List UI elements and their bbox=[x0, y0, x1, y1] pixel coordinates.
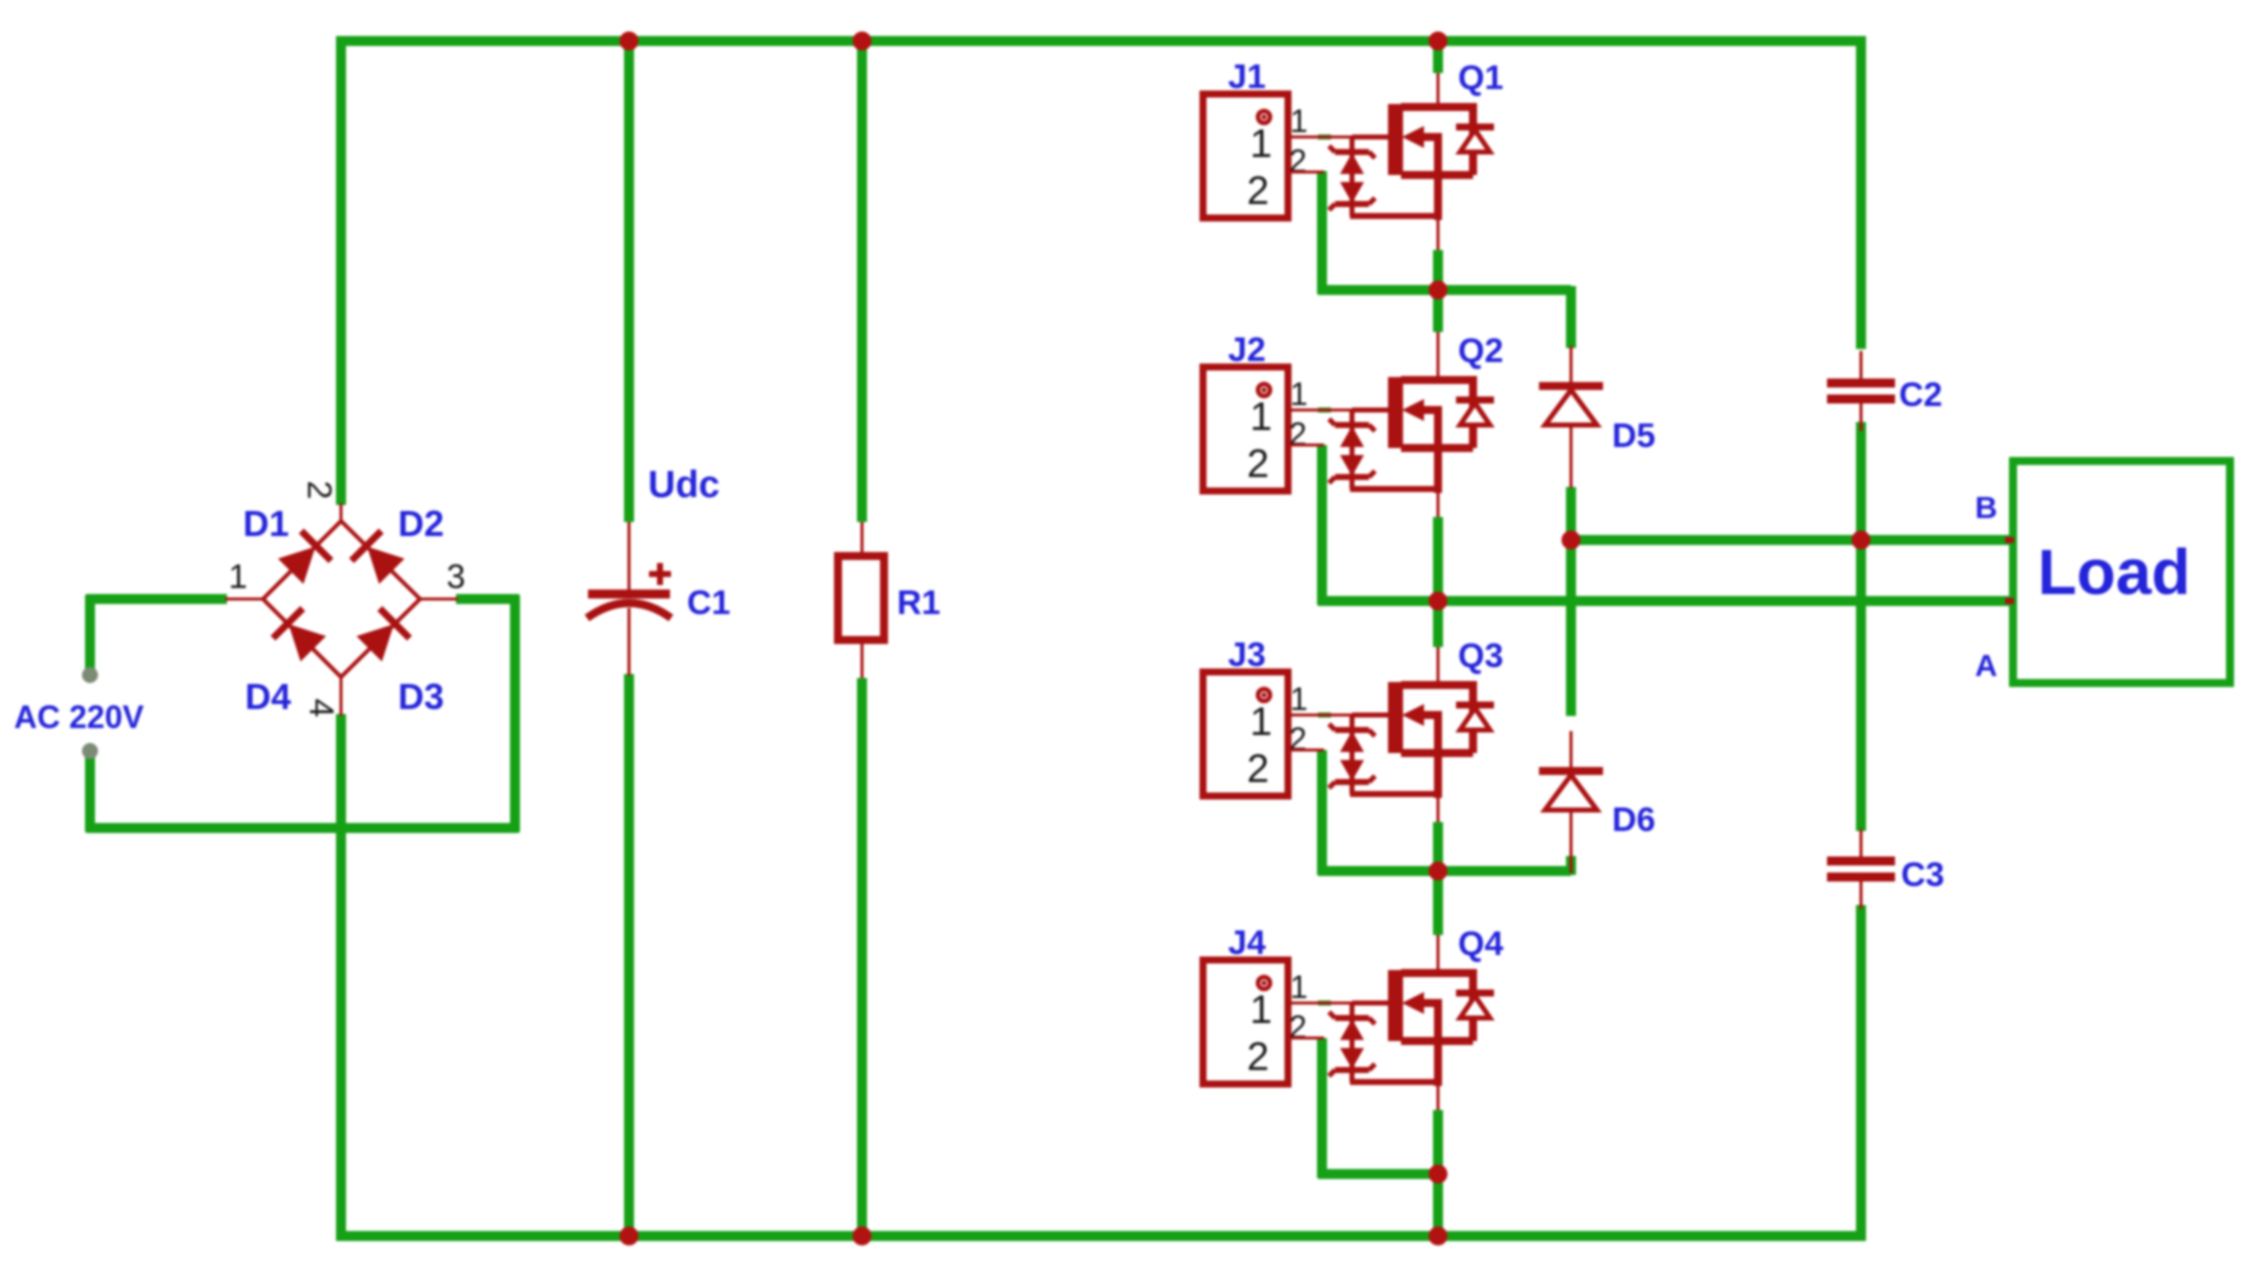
wire node B down to D6 cathode bbox=[1566, 540, 1576, 716]
wire node A line to Load bbox=[1318, 596, 2013, 606]
AC source terminals bbox=[82, 667, 98, 683]
transistor Q4 bbox=[1388, 935, 1494, 1110]
svg-text:C1: C1 bbox=[687, 584, 730, 622]
wire J3 pin2 return bbox=[1317, 750, 1327, 875]
svg-text:Q2: Q2 bbox=[1458, 332, 1503, 370]
svg-text:J3: J3 bbox=[1228, 636, 1266, 674]
node junction bbox=[620, 32, 639, 51]
wire J2 pin2 return bbox=[1317, 445, 1327, 605]
wire D5 anode to node B bbox=[1566, 487, 1576, 544]
node junction bbox=[620, 1227, 639, 1246]
bridge lead node 4 bbox=[340, 677, 343, 716]
svg-text:1: 1 bbox=[1250, 700, 1272, 744]
connector J3 bbox=[1203, 672, 1288, 796]
wire J2 pin2 lead bbox=[1288, 444, 1324, 447]
svg-text:J2: J2 bbox=[1228, 331, 1266, 369]
svg-text:1: 1 bbox=[1290, 681, 1308, 717]
Load box bbox=[2005, 461, 2230, 683]
wire gate net segment bbox=[1318, 1001, 1331, 1006]
wire bridge node 4 down to bottom rail bbox=[336, 714, 346, 1241]
resistor R1 bbox=[838, 522, 884, 678]
svg-text:4: 4 bbox=[302, 699, 340, 718]
wire C2 bottom to node B bbox=[1856, 422, 1866, 540]
svg-text:1: 1 bbox=[1290, 376, 1308, 412]
wire top rail bbox=[336, 36, 1866, 46]
wire gate net segment bbox=[1318, 135, 1331, 140]
wire node B to C3 top bbox=[1856, 540, 1866, 831]
svg-text:2: 2 bbox=[1289, 721, 1307, 757]
svg-text:D6: D6 bbox=[1612, 801, 1655, 839]
wire J1 pin2 lead bbox=[1288, 171, 1324, 174]
svg-text:D4: D4 bbox=[245, 676, 291, 717]
transistor Q2 bbox=[1388, 332, 1494, 517]
connector J1 bbox=[1203, 94, 1288, 218]
svg-text:R1: R1 bbox=[897, 584, 940, 622]
bridge lead node 2 bbox=[340, 503, 343, 521]
svg-text:1: 1 bbox=[1250, 122, 1272, 166]
diode D2 bbox=[352, 531, 405, 584]
wire J3 pin2 lead bbox=[1288, 749, 1324, 752]
node junction bbox=[1429, 592, 1448, 611]
wire Q2 source to Q3 drain bbox=[1433, 517, 1443, 647]
svg-text:2: 2 bbox=[1247, 1035, 1269, 1079]
svg-text:D2: D2 bbox=[398, 503, 444, 544]
bridge lead node 3 bbox=[420, 598, 458, 601]
wire J4 pin2 return bbox=[1317, 1038, 1327, 1178]
wire bottom rail bbox=[336, 1231, 1866, 1241]
svg-text:C3: C3 bbox=[1901, 856, 1944, 894]
wire J4 pin1 lead bbox=[1288, 1002, 1390, 1005]
svg-text:D1: D1 bbox=[243, 503, 289, 544]
svg-text:1: 1 bbox=[1250, 395, 1272, 439]
capacitor C2 bbox=[1827, 351, 1895, 431]
capacitor C3 bbox=[1827, 829, 1895, 909]
svg-text:Q4: Q4 bbox=[1458, 925, 1503, 963]
svg-text:2: 2 bbox=[1289, 1009, 1307, 1045]
diode D5 bbox=[1539, 346, 1603, 488]
wire Q3 source to Q4 drain bbox=[1433, 822, 1443, 935]
transistor Q3 bbox=[1388, 647, 1494, 822]
svg-text:2: 2 bbox=[300, 481, 338, 500]
wire left drop from top rail to bridge node 2 bbox=[336, 37, 346, 505]
svg-text:J1: J1 bbox=[1228, 58, 1266, 96]
node junction bbox=[853, 1227, 872, 1246]
svg-text:D3: D3 bbox=[398, 676, 444, 717]
wire Q4 source to bottom rail bbox=[1433, 1110, 1443, 1241]
diode D3 bbox=[356, 609, 409, 662]
svg-text:B: B bbox=[1975, 490, 1997, 525]
node junction bbox=[1429, 32, 1448, 51]
connector J4 bbox=[1203, 960, 1288, 1084]
wire J4 pin2 lead bbox=[1288, 1037, 1324, 1040]
diode D1 bbox=[278, 531, 331, 584]
wire J1 pin2 return bbox=[1317, 171, 1327, 294]
zener pair Q3 gate protection bbox=[1329, 715, 1438, 794]
wire J2 pin1 lead bbox=[1288, 409, 1390, 412]
svg-text:AC 220V: AC 220V bbox=[14, 699, 145, 735]
wire R1 column bottom bbox=[857, 678, 867, 1236]
node junction bbox=[1429, 1165, 1448, 1184]
zener pair Q1 gate protection bbox=[1329, 137, 1438, 216]
svg-text:A: A bbox=[1975, 648, 1997, 683]
node junction bbox=[1429, 1227, 1448, 1246]
wire right column top rail to C2 bbox=[1856, 37, 1866, 349]
svg-text:C2: C2 bbox=[1899, 376, 1942, 414]
bridge rectifier outline bbox=[263, 521, 420, 677]
svg-text:1: 1 bbox=[1290, 103, 1308, 139]
wire AC source left loop bbox=[86, 594, 227, 604]
wire Q1 drain from top rail bbox=[1433, 41, 1443, 73]
node junction bbox=[853, 32, 872, 51]
wire J1 pin1 lead bbox=[1288, 136, 1390, 139]
wire J3 pin1 lead bbox=[1288, 714, 1390, 717]
diode D4 bbox=[273, 609, 326, 662]
wire C3 bottom to bottom rail bbox=[1856, 905, 1866, 1241]
node junction bbox=[1429, 281, 1448, 300]
svg-text:2: 2 bbox=[1289, 143, 1307, 179]
wire node B line to Load bbox=[1571, 535, 2013, 545]
svg-text:1: 1 bbox=[229, 558, 248, 596]
svg-text:J4: J4 bbox=[1228, 924, 1266, 962]
node junction bbox=[1852, 531, 1871, 550]
wire node Q1 source to D5 cathode bbox=[1566, 286, 1576, 348]
wire gate net segment bbox=[1318, 713, 1331, 718]
node junction bbox=[1429, 862, 1448, 881]
svg-text:2: 2 bbox=[1247, 169, 1269, 213]
svg-text:Q1: Q1 bbox=[1458, 59, 1503, 97]
connector J2 bbox=[1203, 367, 1288, 491]
svg-text:3: 3 bbox=[447, 558, 466, 596]
wire D6 anode down bbox=[1566, 856, 1576, 875]
wire R1 column top bbox=[857, 41, 867, 522]
diode D6 bbox=[1539, 731, 1603, 873]
svg-text:D5: D5 bbox=[1612, 417, 1655, 455]
wire Q1 source to Q2 drain bbox=[1433, 250, 1443, 332]
capacitor C1 bbox=[587, 522, 671, 676]
bridge lead node 1 bbox=[225, 598, 263, 601]
zener pair Q2 gate protection bbox=[1329, 410, 1438, 489]
transistor Q1 bbox=[1388, 73, 1494, 250]
svg-text:Load: Load bbox=[2038, 536, 2191, 608]
svg-text:2: 2 bbox=[1247, 747, 1269, 791]
wire C1 column top bbox=[624, 41, 634, 522]
svg-text:2: 2 bbox=[1289, 416, 1307, 452]
svg-text:1: 1 bbox=[1290, 969, 1308, 1005]
svg-text:Q3: Q3 bbox=[1458, 637, 1503, 675]
node junction bbox=[1562, 531, 1581, 550]
svg-text:2: 2 bbox=[1247, 442, 1269, 486]
wire C1 column bottom bbox=[624, 674, 634, 1236]
zener pair Q4 gate protection bbox=[1329, 1003, 1438, 1082]
svg-text:1: 1 bbox=[1250, 988, 1272, 1032]
svg-text:Udc: Udc bbox=[648, 464, 720, 506]
wire gate net segment bbox=[1318, 408, 1331, 413]
